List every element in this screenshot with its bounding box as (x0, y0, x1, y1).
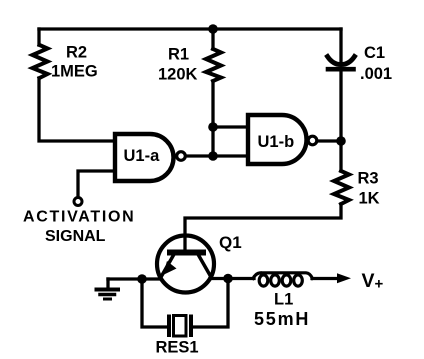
svg-text:120K: 120K (158, 66, 198, 84)
node A (R1 / U1-b inputs junction) (208, 122, 218, 132)
wire C1 top stub (339, 29, 342, 62)
svg-text:55mH: 55mH (254, 309, 310, 329)
transistor Q1 (157, 236, 214, 293)
wire left rail lower (R2 to U1-a input corner) (39, 78, 115, 141)
resistor R3 (334, 171, 349, 204)
wire collector to node E and L1 (210, 277, 254, 280)
wire R3 to Q1 base (185, 204, 341, 249)
wire RES1 to node E (193, 279, 229, 328)
resonator RES1 (169, 316, 191, 337)
ground (97, 279, 119, 299)
wire node A to U1-b top input (213, 125, 248, 128)
svg-text:SIGNAL: SIGNAL (45, 228, 106, 245)
svg-text:L1: L1 (274, 291, 293, 309)
inductor L1 (253, 273, 313, 286)
node D (emitter / RES1 junction) (137, 274, 147, 284)
svg-text:.001: .001 (360, 65, 392, 83)
svg-text:RES1: RES1 (156, 339, 199, 357)
wire node D down to RES1 (142, 279, 167, 327)
svg-text:R1: R1 (168, 46, 189, 64)
svg-text:C1: C1 (364, 44, 385, 62)
wire L1 to V+ arrow (312, 277, 338, 280)
svg-text:R3: R3 (358, 170, 379, 188)
wire left rail upper (top rail to R2) (37, 29, 40, 45)
svg-text:R2: R2 (66, 44, 87, 62)
wire top rail (39, 27, 341, 30)
svg-text:1K: 1K (359, 190, 380, 208)
wire C1 bottom to node C (339, 72, 342, 141)
wire node B to U1-b bottom input (213, 154, 248, 157)
wire emitter to ground (108, 277, 160, 280)
V+ arrowhead (337, 273, 351, 283)
node junction top rail / R1 (208, 24, 218, 34)
gate U1-a (NAND) body (115, 134, 185, 181)
svg-text:ACTIVATION: ACTIVATION (23, 209, 135, 226)
gate U1-b (NAND) body (248, 115, 317, 164)
wire U1-a bottom input from activation terminal (78, 171, 115, 197)
node B (U1-a output junction) (208, 151, 218, 161)
wire R1 bottom to node A (211, 81, 214, 127)
wire U1-b output to node C (318, 139, 341, 142)
wire R1 top stub (211, 29, 214, 49)
svg-text:V: V (362, 270, 375, 292)
svg-text:Q1: Q1 (219, 233, 242, 252)
node activation terminal (open circle) (74, 198, 82, 206)
svg-text:U1-a: U1-a (124, 147, 161, 165)
svg-text:1MEG: 1MEG (51, 63, 98, 81)
wire node C to R3 (339, 141, 342, 171)
svg-text:U1-b: U1-b (258, 133, 295, 151)
resistor R2 (33, 45, 48, 78)
capacitor C1 (328, 57, 355, 70)
svg-text:+: + (375, 276, 384, 293)
resistor R1 (206, 49, 221, 81)
node C (U1-b output / C1 / R3 junction) (336, 136, 346, 146)
wire node A to node B vertical (211, 127, 214, 156)
wire U1-a output to node B (186, 154, 213, 157)
node E (collector / RES1 / L1 junction) (223, 274, 233, 284)
